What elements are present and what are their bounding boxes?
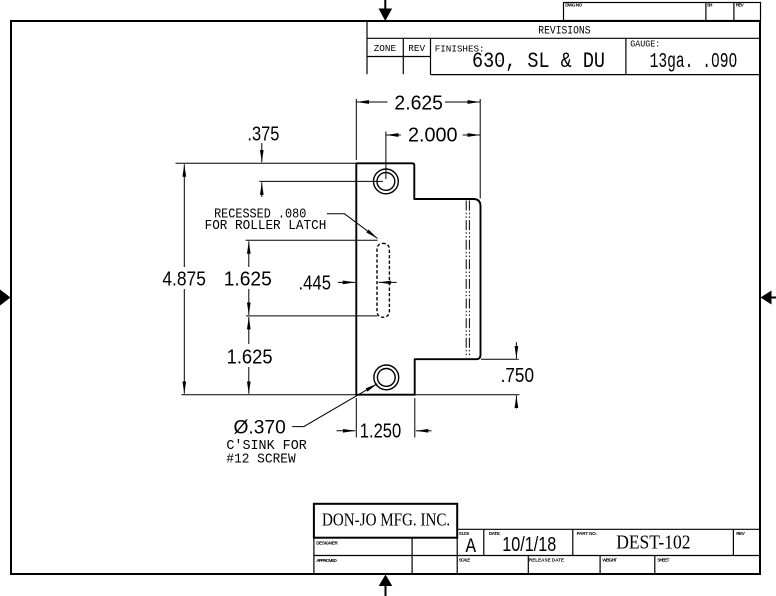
extension line recess top [246, 239, 378, 241]
svg-text:10/1/18: 10/1/18 [502, 534, 556, 556]
top centering arrow [379, 0, 393, 21]
extension line bottom edge left [181, 394, 356, 396]
svg-text:.445: .445 [299, 272, 332, 294]
svg-text:FOR ROLLER LATCH: FOR ROLLER LATCH [205, 218, 327, 234]
strike plate outline [356, 163, 480, 394]
recessed pocket (hidden dashed) [377, 243, 389, 317]
svg-text:#12 SCREW: #12 SCREW [226, 452, 296, 467]
extension line 1.250 left [355, 398, 357, 438]
extension line bottom edge right [415, 394, 519, 396]
bend phantom line 2 [468, 201, 470, 358]
title block company box [314, 504, 457, 538]
dimension 1.625 lower [227, 317, 273, 394]
extension line top edge left [176, 162, 357, 164]
svg-text:Ø.370: Ø.370 [234, 417, 286, 439]
svg-text:REVISIONS: REVISIONS [538, 25, 591, 37]
svg-text:.375: .375 [247, 124, 279, 146]
leader recessed note [327, 214, 378, 239]
dimension .375 [247, 124, 279, 197]
dimension 4.875 [162, 164, 206, 393]
bend phantom line 1 [465, 201, 467, 358]
dimension 2.625 [357, 92, 481, 114]
svg-text:630, SL & DU: 630, SL & DU [472, 49, 605, 74]
note recessed for roller latch [205, 206, 327, 234]
svg-text:DATE:: DATE: [489, 531, 501, 536]
dimension .750 [501, 342, 534, 408]
svg-text:WEIGHT: WEIGHT [602, 558, 617, 563]
svg-text:1.250: 1.250 [360, 421, 401, 443]
svg-text:.750: .750 [501, 365, 534, 387]
svg-text:2.625: 2.625 [394, 92, 443, 114]
svg-text:DESIGNER: DESIGNER [316, 541, 338, 546]
extension line hole center [259, 180, 383, 182]
svg-text:DON-JO MFG. INC.: DON-JO MFG. INC. [322, 510, 450, 530]
svg-text:GAUGE:: GAUGE: [630, 39, 660, 50]
svg-text:SHEET: SHEET [657, 558, 669, 563]
title block values [466, 533, 691, 559]
title block labels [316, 531, 746, 563]
left centering arrow [0, 290, 11, 306]
dwg-no strip box [564, 3, 761, 21]
right centering arrow [761, 291, 776, 305]
dimension .445 [299, 272, 397, 294]
dimension 1.625 upper [224, 241, 272, 315]
svg-text:DEST-102: DEST-102 [616, 533, 690, 554]
svg-text:REV: REV [408, 43, 425, 54]
svg-text:REV: REV [736, 3, 745, 8]
revisions table [367, 21, 760, 75]
extension line lip bottom right [481, 358, 519, 360]
bottom centering arrow [379, 575, 393, 596]
note csink [226, 417, 306, 468]
svg-text:ZONE: ZONE [374, 43, 397, 54]
extension line 2.625 left [355, 99, 357, 160]
svg-text:RELEASE DATE: RELEASE DATE [529, 558, 564, 563]
svg-text:1.625: 1.625 [227, 347, 273, 369]
svg-text:4.875: 4.875 [162, 268, 206, 290]
svg-text:SH: SH [707, 3, 713, 8]
svg-text:2.000: 2.000 [408, 125, 458, 147]
svg-text:A: A [466, 536, 477, 559]
extension line 2.000 left [385, 132, 387, 180]
extension line 2.625 right [479, 99, 481, 199]
svg-text:REV: REV [736, 531, 745, 536]
svg-text:APPROVED: APPROVED [316, 558, 337, 563]
title block grid [314, 529, 760, 574]
extension line recess bottom [246, 315, 378, 317]
svg-text:13ga. .090: 13ga. .090 [650, 51, 738, 74]
top screw hole [374, 169, 399, 194]
svg-text:1.625: 1.625 [224, 268, 272, 290]
extension line 1.250 right [414, 398, 416, 438]
bottom screw hole [374, 365, 399, 390]
leader csink [292, 384, 377, 427]
svg-text:PART NO.: PART NO. [577, 531, 597, 536]
svg-text:DWG NO: DWG NO [565, 3, 582, 8]
dimension 1.250 [337, 421, 432, 443]
dimension 2.000 [386, 125, 480, 147]
